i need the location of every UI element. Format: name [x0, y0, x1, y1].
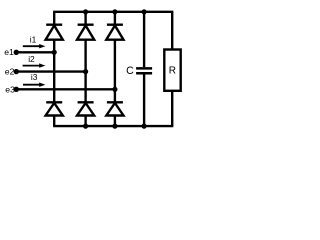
wire leg phase 2 vertical [84, 12, 86, 126]
junction node top rail leg2 [83, 9, 88, 14]
label C [126, 65, 134, 77]
svg-text:i1: i1 [30, 34, 37, 44]
junction node top rail leg3 [112, 9, 117, 14]
wire bottom rail (- bus) [53, 125, 173, 127]
label e3 [5, 85, 15, 95]
label i1 [30, 34, 37, 44]
junction node bottom rail leg3 [112, 124, 117, 129]
terminal dot e2 [14, 69, 19, 74]
junction node phase1/e1 [52, 50, 57, 55]
svg-text:C: C [126, 65, 134, 77]
label i2 [28, 54, 35, 64]
terminal dot e1 [14, 50, 19, 55]
wire leg phase 1 vertical [53, 12, 55, 126]
label i3 [31, 72, 38, 82]
junction node phase2/e2 [83, 69, 88, 74]
svg-text:e2: e2 [5, 67, 15, 77]
diode D6 bottom phase3 [106, 102, 123, 115]
svg-text:e3: e3 [5, 85, 15, 95]
current arrow i2 [23, 63, 46, 67]
current arrow i1 [23, 44, 46, 48]
wire leg phase 3 vertical [114, 12, 116, 126]
wire phase e1 input [16, 51, 54, 53]
svg-text:i2: i2 [28, 54, 35, 64]
diode D1 top phase1 [46, 25, 63, 40]
junction node bottom rail leg2 [83, 124, 88, 129]
label e2 [5, 67, 15, 77]
junction node bottom rail capacitor [142, 124, 147, 129]
capacitor C [136, 12, 152, 126]
wire top rail (+ bus) [53, 11, 173, 13]
junction node top rail capacitor [142, 9, 147, 14]
diode D2 top phase2 [77, 25, 94, 40]
svg-text:R: R [169, 66, 176, 77]
current arrow i3 [23, 83, 45, 87]
label R [169, 66, 176, 77]
terminal dot e3 [14, 87, 19, 92]
svg-text:i3: i3 [31, 72, 38, 82]
junction node phase3/e3 [112, 87, 117, 92]
wire phase e3 input [16, 88, 115, 90]
label e1 [4, 47, 14, 57]
resistor R [164, 12, 180, 126]
diode D4 bottom phase1 [46, 102, 63, 115]
diode D3 top phase3 [106, 25, 123, 40]
svg-text:e1: e1 [4, 47, 14, 57]
wire phase e2 input [16, 70, 85, 72]
diode D5 bottom phase2 [77, 102, 94, 115]
